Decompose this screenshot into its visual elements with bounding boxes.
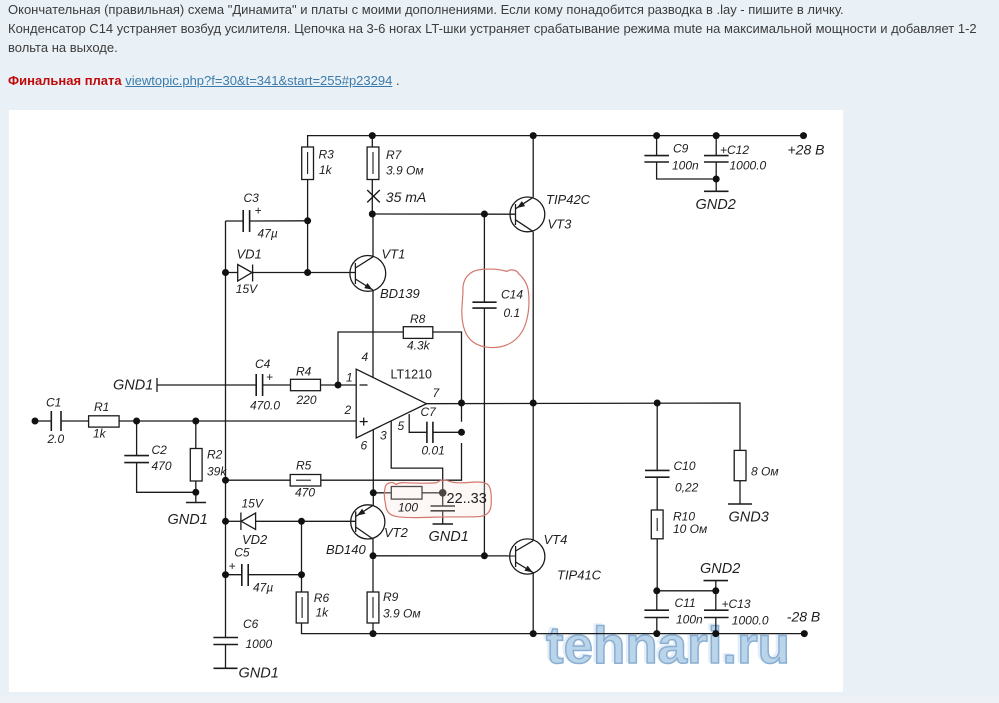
svg-text:10 Ом: 10 Ом [673, 522, 707, 536]
svg-text:3.9 Ом: 3.9 Ом [386, 164, 424, 178]
svg-text:47µ: 47µ [253, 581, 273, 595]
svg-text:470.0: 470.0 [250, 399, 280, 413]
svg-text:C2: C2 [152, 443, 168, 457]
svg-text:VT1: VT1 [382, 247, 406, 262]
svg-text:2: 2 [344, 403, 352, 417]
svg-text:1000.0: 1000.0 [732, 613, 769, 627]
svg-text:R6: R6 [314, 591, 330, 605]
svg-text:+28 В: +28 В [788, 142, 825, 158]
svg-text:1k: 1k [93, 427, 107, 441]
svg-text:GND2: GND2 [700, 561, 740, 577]
svg-text:1k: 1k [316, 606, 330, 620]
svg-text:C1: C1 [46, 395, 61, 409]
svg-text:1000: 1000 [246, 637, 273, 651]
svg-text:BD140: BD140 [326, 542, 367, 557]
svg-text:3.9 Ом: 3.9 Ом [383, 607, 421, 621]
svg-text:C14: C14 [501, 288, 523, 302]
svg-text:6: 6 [361, 438, 368, 452]
svg-text:VT3: VT3 [548, 217, 573, 232]
svg-text:C11: C11 [675, 596, 696, 610]
svg-text:C10: C10 [674, 459, 696, 473]
svg-text:R3: R3 [319, 148, 335, 162]
svg-text:22..33: 22..33 [447, 491, 487, 507]
svg-text:+: + [229, 559, 236, 573]
svg-text:4: 4 [362, 350, 369, 364]
svg-text:4.3k: 4.3k [407, 338, 431, 352]
svg-text:C7: C7 [421, 405, 438, 419]
svg-text:R2: R2 [207, 448, 223, 462]
svg-text:220: 220 [296, 393, 317, 407]
svg-text:R4: R4 [296, 365, 312, 379]
svg-text:+: + [255, 204, 262, 218]
svg-text:GND1: GND1 [113, 377, 153, 393]
svg-text:+C13: +C13 [722, 597, 751, 611]
svg-text:C5: C5 [234, 546, 250, 560]
svg-text:15V: 15V [242, 497, 264, 511]
svg-text:GND1: GND1 [429, 529, 469, 545]
svg-text:1: 1 [346, 371, 353, 385]
svg-text:0.01: 0.01 [422, 444, 445, 458]
svg-text:TIP41C: TIP41C [557, 567, 602, 582]
svg-text:-28 В: -28 В [787, 609, 820, 625]
svg-text:VT2: VT2 [384, 525, 409, 540]
svg-text:GND1: GND1 [168, 512, 208, 528]
svg-text:TIP42C: TIP42C [546, 192, 591, 207]
svg-text:470: 470 [152, 459, 172, 473]
svg-text:0,22: 0,22 [675, 481, 699, 495]
svg-text:47µ: 47µ [258, 227, 278, 241]
svg-text:5: 5 [398, 419, 405, 433]
svg-text:100n: 100n [672, 159, 699, 173]
svg-text:C9: C9 [673, 141, 689, 155]
svg-text:15V: 15V [236, 282, 258, 296]
svg-text:8 Ом: 8 Ом [751, 465, 779, 479]
svg-text:100n: 100n [676, 613, 703, 627]
svg-text:VT4: VT4 [544, 532, 568, 547]
svg-text:3: 3 [380, 429, 387, 443]
svg-text:R9: R9 [383, 590, 399, 604]
svg-text:35 mA: 35 mA [386, 189, 426, 205]
svg-text:C6: C6 [243, 617, 259, 631]
svg-text:BD139: BD139 [380, 286, 420, 301]
svg-text:GND1: GND1 [239, 666, 279, 682]
svg-text:39k: 39k [207, 465, 227, 479]
svg-text:R1: R1 [94, 400, 109, 414]
svg-text:1000.0: 1000.0 [730, 158, 767, 172]
svg-text:+C12: +C12 [720, 143, 749, 157]
svg-text:1k: 1k [319, 163, 333, 177]
svg-text:LT1210: LT1210 [391, 368, 433, 382]
svg-text:100: 100 [398, 501, 418, 515]
svg-text:R8: R8 [410, 312, 426, 326]
svg-text:470: 470 [295, 486, 315, 500]
svg-text:R5: R5 [296, 458, 312, 472]
svg-text:0.1: 0.1 [504, 306, 521, 320]
svg-text:VD1: VD1 [237, 246, 262, 261]
svg-text:2.0: 2.0 [47, 432, 65, 446]
svg-text:GND2: GND2 [696, 197, 736, 213]
svg-text:GND3: GND3 [729, 509, 769, 525]
svg-text:R7: R7 [386, 148, 403, 162]
svg-text:VD2: VD2 [242, 532, 268, 547]
svg-text:+: + [266, 370, 273, 384]
